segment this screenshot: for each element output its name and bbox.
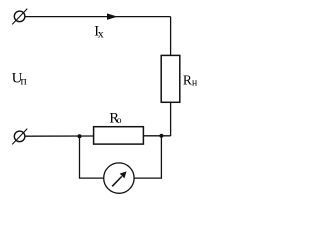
wire right branch from ammeter up to node — [134, 136, 161, 178]
wire Ro right to node — [143, 135, 170, 137]
wire bottom-left horizontal to Ro — [25, 135, 94, 137]
terminal (input) top-left — [12, 9, 27, 25]
svg-text:Rн: Rн — [183, 72, 198, 88]
svg-text:x: x — [98, 27, 104, 41]
resistor Ro — [94, 127, 144, 144]
wire from Rn down to bottom node — [170, 102, 172, 136]
node junction left (dot) — [78, 134, 82, 138]
wire right vertical down to Rn — [170, 17, 172, 56]
ammeter PA1 (galvanometer) — [104, 163, 134, 193]
ammeter needle arrow — [112, 176, 122, 186]
svg-text:о: о — [117, 116, 122, 126]
wire left branch down to ammeter — [80, 136, 104, 178]
svg-text:п: п — [21, 76, 27, 88]
node junction right (dot) — [159, 134, 163, 138]
wire top horizontal — [25, 16, 171, 18]
resistor Rn — [161, 55, 180, 102]
terminal (input) bottom-left — [12, 129, 27, 145]
current arrow Ix — [107, 13, 117, 20]
